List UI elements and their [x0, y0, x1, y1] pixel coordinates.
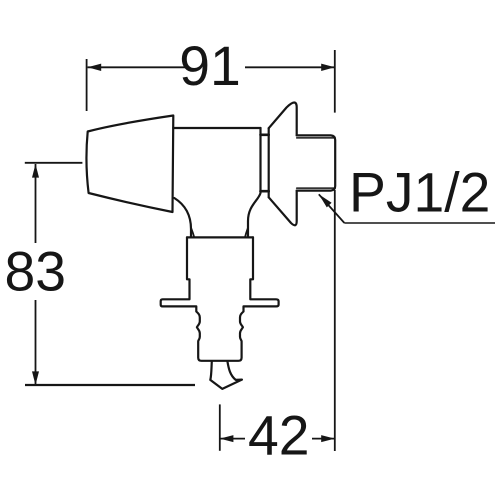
svg-text:PJ1/2: PJ1/2	[349, 162, 490, 224]
thread crest lines	[297, 137, 335, 139]
fillet curl left	[191, 229, 194, 237]
dim 91 left extension	[86, 59, 88, 111]
dim 91 line	[88, 66, 335, 68]
svg-text:91: 91	[179, 35, 241, 97]
fillet curl right	[245, 229, 248, 237]
body top line	[173, 127, 260, 129]
dim 83 top extension	[25, 162, 83, 164]
cone top slant	[269, 103, 297, 136]
dim 42 left extension	[219, 404, 221, 450]
body left fillet to spout	[174, 198, 191, 237]
outlet hook	[210, 361, 242, 389]
arrow 91 left	[88, 64, 102, 71]
baseline bottom	[25, 384, 195, 386]
arrow 91 right	[321, 64, 335, 71]
collar / wings / groove neck outline	[161, 237, 279, 360]
arrow 83 bottom	[32, 371, 39, 385]
arrow 83 top	[32, 164, 39, 178]
arrow leader	[319, 194, 332, 207]
leader line PJ1/2	[319, 194, 345, 223]
dim 83 line	[35, 164, 37, 385]
arrow 42 left	[220, 435, 234, 442]
handle knob	[86, 116, 173, 213]
arrow 42 right	[321, 435, 335, 442]
thread outline	[297, 135, 336, 190]
right extension line	[334, 50, 336, 451]
dim 42 line	[220, 438, 335, 440]
collar top line	[187, 236, 253, 238]
svg-text:42: 42	[248, 405, 310, 467]
neck ring ticks	[261, 134, 269, 137]
leader underline	[344, 222, 495, 224]
body right edge with curve to spout	[248, 128, 261, 237]
cone bottom slant	[269, 191, 297, 226]
cone flange left edge	[268, 128, 270, 197]
svg-text:83: 83	[4, 240, 66, 302]
